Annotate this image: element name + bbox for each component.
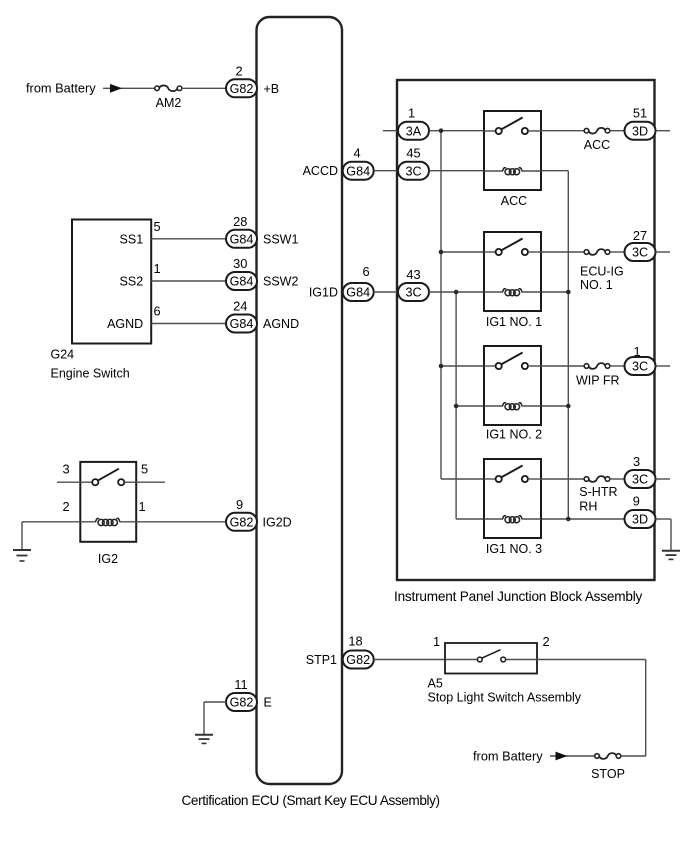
- fuse AM2: [155, 85, 182, 91]
- svg-text:5: 5: [153, 219, 160, 234]
- pin number 2 (IG2): [62, 499, 69, 514]
- svg-text:S-HTR: S-HTR: [579, 485, 617, 499]
- junction dot 43 bus top: [454, 290, 459, 295]
- label SS2: [120, 275, 144, 289]
- pin number 1 (3C): [633, 344, 640, 359]
- wire IG1 NO.2 relay to fuse: [541, 365, 584, 367]
- Instrument Panel Junction Block Assembly box: [397, 80, 655, 580]
- wire ACC coil right then down: [541, 171, 568, 519]
- svg-text:Stop Light Switch Assembly: Stop Light Switch Assembly: [428, 691, 582, 705]
- wire IG2 coil to G82 pin 9: [120, 521, 226, 523]
- svg-text:G84: G84: [346, 286, 370, 300]
- connector 3C pin 3: [625, 470, 656, 488]
- wire fuse to 3C pin 1: [610, 365, 625, 367]
- svg-text:Engine Switch: Engine Switch: [51, 367, 130, 381]
- svg-text:IG1 NO. 1: IG1 NO. 1: [486, 315, 542, 329]
- junction dot coil bus NO.3: [566, 517, 571, 522]
- wire bus to IG1 NO.3 coil: [456, 518, 484, 520]
- wire stub right of 3C1: [656, 365, 671, 367]
- svg-text:2: 2: [235, 63, 242, 78]
- wire IG2 coil left to ground: [22, 522, 96, 550]
- label AGND (switch): [107, 317, 143, 331]
- relay IG1 NO. 2: [484, 346, 541, 425]
- svg-text:IG1D: IG1D: [309, 286, 338, 300]
- arrow from Battery (top): [110, 84, 122, 93]
- wire STOP fuse to corner: [621, 755, 646, 757]
- svg-text:STOP: STOP: [591, 767, 625, 781]
- wire fuse ACC to 3D pin 51: [610, 130, 625, 132]
- wire from Battery to STOP fuse: [550, 755, 595, 757]
- svg-text:+B: +B: [264, 82, 280, 96]
- connector 3D pin 51: [625, 122, 656, 140]
- wire from Battery to fuse AM2: [103, 87, 155, 89]
- relay ACC: [484, 111, 541, 190]
- engine switch box G24: [72, 220, 151, 344]
- wire bus to IG1 NO.3 switch: [441, 478, 484, 480]
- label IG2: [98, 552, 118, 566]
- pin number 6 (AGND): [153, 304, 160, 319]
- connector 3C pin 43: [398, 283, 429, 301]
- svg-text:9: 9: [236, 497, 243, 512]
- label Certification ECU: [182, 793, 440, 808]
- svg-text:G84: G84: [346, 164, 370, 178]
- svg-text:3D: 3D: [632, 513, 648, 527]
- fuse ECU-IG NO. 1: [584, 249, 610, 255]
- connector 3C pin 1: [625, 357, 656, 375]
- label Stop Light Switch Assembly: [428, 691, 582, 705]
- svg-text:1: 1: [153, 261, 160, 276]
- connector G82 pin 18 (STP1): [343, 651, 374, 669]
- svg-text:28: 28: [233, 214, 247, 229]
- wire STP1 to stop light switch: [374, 659, 445, 661]
- label ACC: [501, 194, 527, 208]
- label S-HTR: [579, 485, 617, 499]
- wire ACC relay to fuse ACC: [541, 130, 584, 132]
- relay IG2 switch contacts: [92, 469, 124, 486]
- svg-text:45: 45: [406, 146, 420, 161]
- label STOP: [591, 767, 625, 781]
- pin number 4: [353, 145, 360, 160]
- wire stub right of 3C27: [656, 251, 671, 253]
- svg-text:NO. 1: NO. 1: [580, 278, 613, 292]
- pin number 24: [233, 299, 247, 314]
- svg-text:WIP FR: WIP FR: [576, 373, 620, 387]
- svg-text:SSW1: SSW1: [263, 232, 298, 246]
- label from Battery (top): [26, 81, 96, 96]
- label AM2: [156, 96, 182, 110]
- wire 3C45 to ACC relay coil: [429, 170, 484, 172]
- wire bus to IG1 NO.2 coil: [456, 405, 484, 407]
- svg-text:SSW2: SSW2: [263, 275, 298, 289]
- svg-text:G82: G82: [230, 696, 254, 710]
- pin number 1 (A5): [433, 634, 440, 649]
- svg-text:G24: G24: [51, 347, 75, 361]
- svg-text:SS1: SS1: [120, 232, 144, 246]
- label IG2D: [263, 515, 292, 529]
- connector 3C pin 45: [398, 162, 429, 180]
- wire stub right of 3D51: [656, 130, 671, 132]
- wire ACCD to 3C pin 45: [374, 170, 398, 172]
- junction dot bus IG1 NO.2 switch: [439, 364, 444, 369]
- svg-text:A5: A5: [428, 676, 443, 690]
- ground (E): [195, 735, 213, 744]
- connector G84 pin 30 (SSW2): [226, 272, 257, 290]
- svg-text:ECU-IG: ECU-IG: [580, 264, 624, 278]
- pin number 51: [633, 106, 647, 121]
- pin number 18: [348, 634, 362, 649]
- label SS1: [120, 232, 144, 246]
- pin number 30: [233, 256, 247, 271]
- pin number 9: [236, 497, 243, 512]
- junction dot 3A bus top: [439, 128, 444, 133]
- arrow from Battery (bottom): [556, 752, 568, 761]
- pin number 1 (SS2): [153, 261, 160, 276]
- label G24: [51, 347, 75, 361]
- pin number 1 (3A): [408, 106, 415, 121]
- label AGND (ECU): [263, 317, 299, 331]
- vertical bus from 3A: [440, 131, 442, 479]
- svg-text:Certification ECU (Smart Key E: Certification ECU (Smart Key ECU Assembl…: [182, 793, 440, 808]
- svg-text:1: 1: [138, 499, 145, 514]
- label E: [264, 696, 272, 710]
- svg-text:1: 1: [433, 634, 440, 649]
- pin number 2: [235, 63, 242, 78]
- svg-text:3C: 3C: [405, 164, 421, 178]
- wire AGND to G84 pin 24: [151, 323, 226, 325]
- svg-text:G84: G84: [230, 232, 254, 246]
- svg-text:from Battery: from Battery: [473, 748, 543, 763]
- pin number 6 (IG1D): [362, 264, 369, 279]
- svg-text:IG1 NO. 2: IG1 NO. 2: [486, 428, 542, 442]
- svg-text:4: 4: [353, 145, 360, 160]
- relay IG1 NO. 3: [484, 459, 541, 538]
- svg-text:24: 24: [233, 299, 247, 314]
- svg-text:51: 51: [633, 106, 647, 121]
- svg-text:Instrument Panel Junction Bloc: Instrument Panel Junction Block Assembly: [394, 589, 643, 604]
- Certification ECU (Smart Key ECU Assembly) box: [257, 17, 343, 784]
- junction dot bus IG1 NO.2 coil: [454, 404, 459, 409]
- label Instrument Panel Junction Block Assembly: [394, 589, 643, 604]
- wire IG1 NO.1 relay to fuse: [541, 251, 584, 253]
- junction dot bus IG1 NO.1 switch: [439, 250, 444, 255]
- label STP1: [306, 653, 337, 667]
- svg-text:9: 9: [633, 494, 640, 509]
- svg-text:2: 2: [542, 634, 549, 649]
- label RH: [579, 500, 597, 514]
- wire stop switch to STOP fuse corner: [537, 660, 646, 757]
- wire 3D pin 9 to ground: [656, 519, 672, 551]
- wire IG1 NO.1 coil right: [541, 291, 568, 293]
- svg-text:G82: G82: [346, 653, 370, 667]
- wire stub right of 3C3: [656, 478, 671, 480]
- svg-text:3C: 3C: [632, 473, 648, 487]
- svg-text:G82: G82: [230, 82, 254, 96]
- svg-text:from Battery: from Battery: [26, 81, 96, 96]
- wire IG1 NO.3 relay to fuse: [541, 478, 584, 480]
- label SSW2: [263, 275, 298, 289]
- svg-text:43: 43: [406, 267, 420, 282]
- wire stub left of 3A: [383, 130, 398, 132]
- label WIP FR: [576, 373, 620, 387]
- stop light switch contacts: [445, 650, 537, 662]
- ground (junction block): [662, 551, 680, 560]
- label +B: [264, 82, 280, 96]
- svg-text:11: 11: [234, 677, 247, 692]
- svg-text:3C: 3C: [632, 246, 648, 260]
- wire 3C43 to IG1 NO.1 coil: [429, 291, 484, 293]
- svg-text:AM2: AM2: [156, 96, 182, 110]
- connector G82 pin 9 (IG2D): [226, 513, 257, 531]
- pin number 11: [234, 677, 247, 692]
- svg-text:IG2: IG2: [98, 552, 118, 566]
- connector G84 pin 28 (SSW1): [226, 230, 257, 248]
- svg-text:27: 27: [633, 228, 647, 243]
- wire IG1 NO.3 coil to 3D pin 9: [541, 518, 625, 520]
- pin number 43: [406, 267, 420, 282]
- pin number 5 (SS1): [153, 219, 160, 234]
- wire fuse to 3C pin 27: [610, 251, 625, 253]
- connector 3C pin 27: [625, 243, 656, 261]
- label NO. 1: [580, 278, 613, 292]
- wire SS1 to G84 pin 28: [151, 238, 226, 240]
- pin number 27: [633, 228, 647, 243]
- label SSW1: [263, 232, 298, 246]
- junction dot coil bus NO.2: [566, 404, 571, 409]
- label IG1 NO. 2: [486, 428, 542, 442]
- label ACCD: [303, 164, 338, 178]
- wire bus to IG1 NO.2 switch: [441, 365, 484, 367]
- svg-text:E: E: [264, 696, 272, 710]
- pin number 1 (IG2): [138, 499, 145, 514]
- pin number 2 (A5): [542, 634, 549, 649]
- pin number 9 (3D): [633, 494, 640, 509]
- fuse ACC: [584, 128, 610, 134]
- svg-text:3: 3: [633, 454, 640, 469]
- label Engine Switch: [51, 367, 130, 381]
- svg-text:3D: 3D: [632, 124, 648, 138]
- pin number 3 (3C): [633, 454, 640, 469]
- svg-text:5: 5: [141, 461, 148, 476]
- svg-text:AGND: AGND: [107, 317, 143, 331]
- label IG1D: [309, 286, 338, 300]
- svg-text:AGND: AGND: [263, 317, 299, 331]
- svg-text:6: 6: [153, 304, 160, 319]
- junction dot coil bus NO.1: [566, 290, 571, 295]
- fuse STOP: [595, 753, 621, 759]
- relay IG1 NO. 1: [484, 232, 541, 311]
- connector G82 pin 2 (+B): [226, 79, 257, 97]
- wire fuse AM2 to connector G82 pin 2: [182, 87, 226, 89]
- svg-text:3A: 3A: [406, 124, 422, 138]
- svg-text:SS2: SS2: [120, 275, 144, 289]
- svg-text:30: 30: [233, 256, 247, 271]
- wire SS2 to G84 pin 30: [151, 280, 226, 282]
- fuse WIP FR: [584, 363, 610, 369]
- label from Battery (bottom): [473, 748, 543, 763]
- ground (IG2 coil): [13, 550, 31, 561]
- connector G84 pin 24 (AGND): [226, 315, 257, 333]
- wire IG1 NO.2 coil right: [541, 405, 568, 407]
- wire fuse to 3C pin 3: [610, 478, 625, 480]
- svg-text:G82: G82: [230, 515, 254, 529]
- pin number 45: [406, 146, 420, 161]
- svg-text:ACCD: ACCD: [303, 164, 338, 178]
- svg-text:ACC: ACC: [501, 194, 527, 208]
- wire IG2 pin 3 stub: [57, 481, 92, 483]
- wire IG1D to 3C pin 43: [374, 291, 398, 293]
- svg-text:3C: 3C: [632, 360, 648, 374]
- svg-text:3C: 3C: [405, 286, 421, 300]
- svg-text:RH: RH: [579, 500, 597, 514]
- pin number 3 (IG2): [62, 461, 69, 476]
- label A5: [428, 676, 443, 690]
- connector G84 pin 4 (ACCD): [343, 162, 374, 180]
- connector G84 pin 6 (IG1D): [343, 283, 374, 301]
- wire bus to IG1 NO.1 switch: [441, 251, 484, 253]
- connector G82 pin 11 (E): [226, 693, 257, 711]
- svg-text:G84: G84: [230, 317, 254, 331]
- pin number 5 (IG2): [141, 461, 148, 476]
- stop light switch box A5: [445, 643, 537, 674]
- label ECU-IG: [580, 264, 624, 278]
- label IG1 NO. 3: [486, 542, 542, 556]
- vertical bus from 3C43: [455, 292, 457, 519]
- svg-text:IG2D: IG2D: [263, 515, 292, 529]
- wire E to ground: [204, 702, 226, 735]
- svg-text:IG1 NO. 3: IG1 NO. 3: [486, 542, 542, 556]
- wire 3A to ACC relay switch: [429, 130, 484, 132]
- label ACC fuse: [584, 138, 610, 152]
- pin number 28: [233, 214, 247, 229]
- wire IG2 pin 5 stub: [124, 481, 165, 483]
- svg-text:ACC: ACC: [584, 138, 610, 152]
- connector 3A pin 1: [398, 122, 429, 140]
- relay IG2 box: [80, 462, 136, 542]
- svg-text:G84: G84: [230, 275, 254, 289]
- relay IG2 coil: [96, 518, 120, 525]
- svg-text:STP1: STP1: [306, 653, 337, 667]
- connector 3D pin 9: [625, 510, 656, 528]
- svg-text:2: 2: [62, 499, 69, 514]
- svg-text:18: 18: [348, 634, 362, 649]
- label IG1 NO. 1: [486, 315, 542, 329]
- svg-text:3: 3: [62, 461, 69, 476]
- svg-text:1: 1: [408, 106, 415, 121]
- fuse S-HTR RH: [584, 476, 610, 482]
- svg-text:6: 6: [362, 264, 369, 279]
